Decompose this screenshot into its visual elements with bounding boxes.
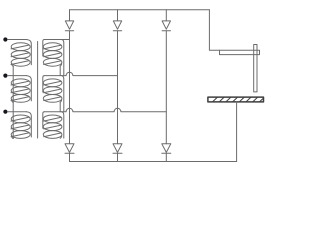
diode D4: [65, 144, 74, 154]
transformer T1 primary winding P2: [11, 76, 31, 103]
transformer T1 secondary winding S1: [43, 40, 70, 76]
wire top bus drop to cathode: [209, 10, 219, 51]
diode D2: [113, 21, 121, 31]
node B input terminal: [3, 74, 7, 78]
x-ray tube cathode focusing plate: [254, 45, 257, 92]
wire phase B input lead: [8, 75, 27, 77]
wire rectifier column 2: [117, 10, 119, 162]
x-ray tube anode target (hatched): [208, 97, 264, 102]
transformer T1 secondary winding S2: [43, 76, 64, 112]
wire S3 top tap to column 3 with hops over columns 1 and 2: [44, 108, 166, 111]
transformer T1 primary winding P1: [11, 40, 31, 67]
diode D1: [65, 21, 73, 31]
diode D6: [162, 144, 171, 154]
wire top DC bus: [70, 9, 210, 11]
transformer T1 core: [37, 42, 39, 139]
wire phase C input lead: [8, 111, 27, 113]
diode D3: [162, 21, 170, 31]
wire phase A input lead: [8, 39, 27, 41]
wire rectifier column 3: [165, 10, 167, 162]
wire primary series link: [12, 66, 14, 138]
diode D5: [113, 144, 122, 154]
node A input terminal: [3, 37, 7, 41]
wire anode to bottom bus: [236, 102, 238, 162]
wire S2 to S3 link: [59, 102, 61, 111]
transformer T1 primary winding P3: [11, 112, 31, 139]
wire rectifier column 1: [69, 10, 71, 162]
node C input terminal: [3, 110, 7, 114]
x-ray tube cathode support bar: [220, 50, 260, 54]
wire S1 to S2 link: [59, 66, 61, 75]
transformer T1 secondary winding S3: [43, 112, 64, 139]
wire bottom DC bus: [70, 161, 237, 163]
wire S2 top tap to column 2 with hop over column 1: [44, 72, 117, 75]
